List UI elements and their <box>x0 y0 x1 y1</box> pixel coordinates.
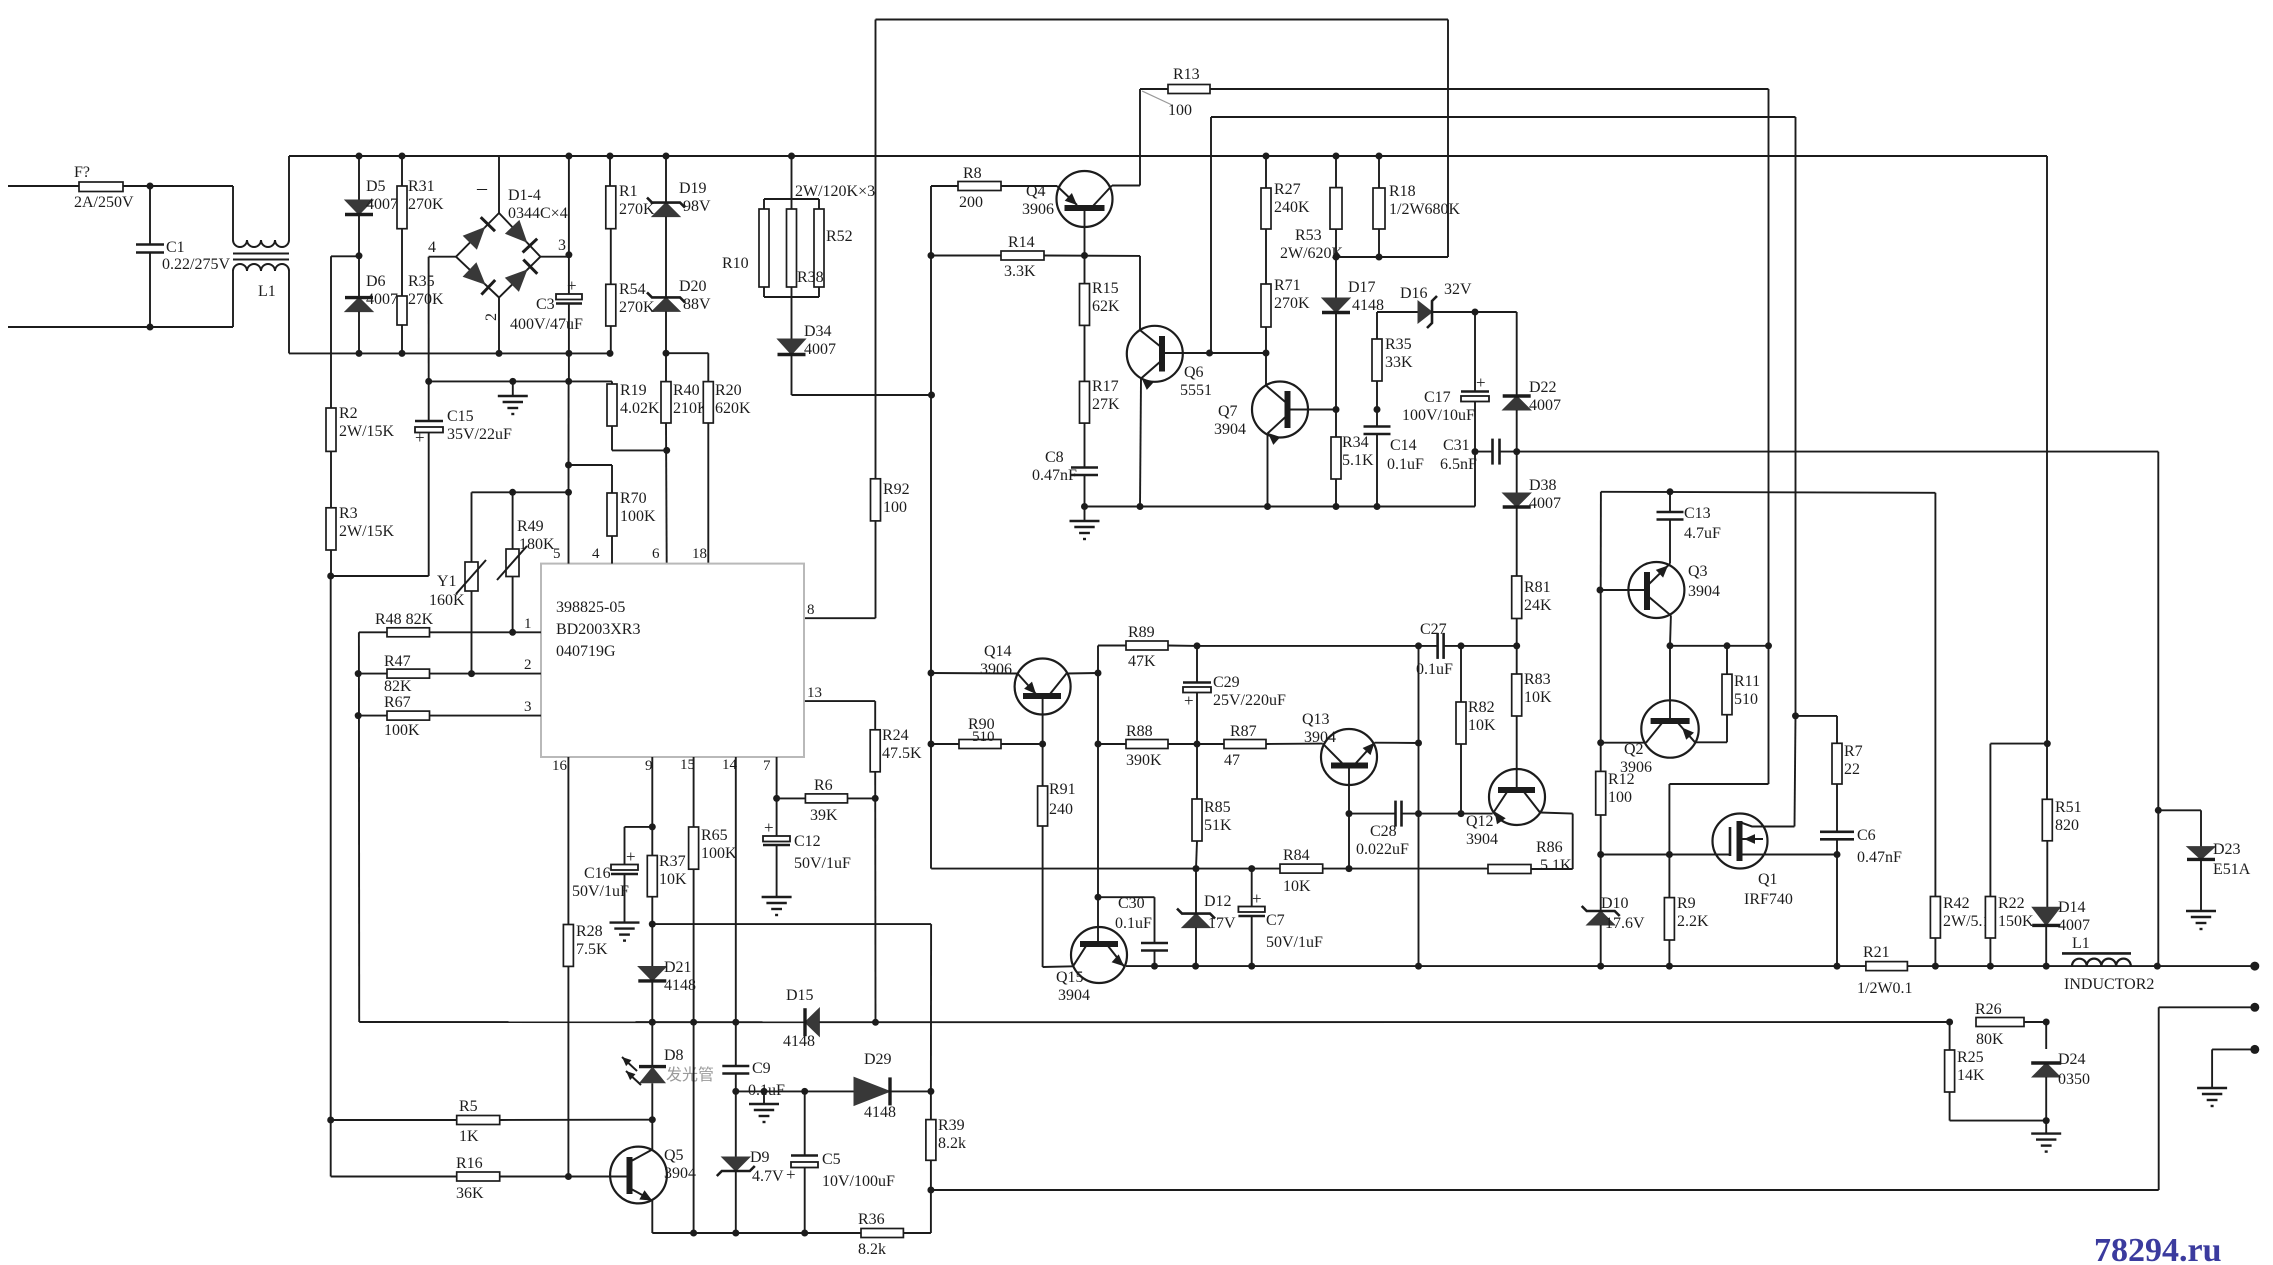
Q15 collector diagonal <box>1073 946 1086 966</box>
wire <box>1195 928 1197 967</box>
wire <box>2159 1006 2255 1008</box>
svg-text:51K: 51K <box>1204 817 1232 834</box>
Q5 base lead <box>568 1176 629 1178</box>
svg-text:C17: C17 <box>1424 389 1451 406</box>
wire <box>358 312 360 354</box>
wire <box>610 229 612 285</box>
ground stem <box>2045 1121 2047 1134</box>
svg-text:240: 240 <box>1049 801 1073 818</box>
Q7 base lead <box>1288 409 1337 411</box>
svg-text:7: 7 <box>763 758 771 774</box>
wire top bus <box>289 155 2047 157</box>
wire <box>665 156 667 203</box>
wire <box>1266 743 1323 745</box>
wire <box>1084 475 1086 507</box>
node <box>468 670 475 677</box>
svg-text:2W/15K: 2W/15K <box>339 523 395 540</box>
resistor R52 <box>814 209 824 287</box>
capacitor C31 <box>1493 439 1500 465</box>
Q14 base bar <box>1023 693 1061 699</box>
node <box>1376 153 1383 160</box>
resistor R81 <box>1512 576 1522 619</box>
resistor R70 <box>607 493 617 536</box>
wire <box>1669 646 1671 721</box>
wire <box>735 1074 737 1092</box>
Q5 base bar <box>627 1157 633 1194</box>
node <box>649 823 656 830</box>
wire <box>930 924 932 1091</box>
node <box>565 1173 572 1180</box>
Q15 base bar <box>1080 941 1118 947</box>
svg-text:R10: R10 <box>722 255 749 272</box>
svg-text:R85: R85 <box>1204 799 1231 816</box>
node <box>663 447 670 454</box>
svg-text:Q13: Q13 <box>1302 711 1330 728</box>
svg-text:+: + <box>786 1165 796 1184</box>
capacitor C9 <box>722 1066 749 1074</box>
node <box>1597 963 1604 970</box>
node <box>2155 807 2162 814</box>
node <box>1597 739 1604 746</box>
svg-text:2A/250V: 2A/250V <box>74 194 134 211</box>
svg-text:25V/220uF: 25V/220uF <box>1213 692 1286 709</box>
node <box>1415 810 1422 817</box>
wire <box>610 326 612 353</box>
node <box>1333 406 1340 413</box>
svg-text:R18: R18 <box>1389 183 1416 200</box>
svg-text:3904: 3904 <box>1058 987 1090 1004</box>
node <box>1081 503 1088 510</box>
wire <box>430 715 542 717</box>
capacitor C27 <box>1438 633 1444 659</box>
svg-text:240K: 240K <box>1274 199 1310 216</box>
Q14 emitter diagonal <box>1018 674 1037 695</box>
node <box>1666 851 1673 858</box>
capacitor C15 <box>415 421 443 433</box>
wire C15 lower lead <box>428 433 430 577</box>
svg-text:D38: D38 <box>1529 477 1557 494</box>
wire <box>512 577 514 633</box>
svg-text:510: 510 <box>1734 691 1758 708</box>
svg-text:3906: 3906 <box>1022 201 1054 218</box>
wire <box>666 352 708 354</box>
Q15 emitter diagonal <box>1108 946 1124 966</box>
svg-text:C30: C30 <box>1118 895 1145 912</box>
resistor R36 <box>861 1229 903 1238</box>
capacitor C17 <box>1461 392 1489 402</box>
svg-text:R51: R51 <box>2055 799 2082 816</box>
svg-text:R91: R91 <box>1049 781 1076 798</box>
node <box>1667 488 1674 495</box>
capacitor C13 <box>1657 512 1684 520</box>
node <box>356 153 363 160</box>
svg-text:R9: R9 <box>1677 895 1696 912</box>
wire <box>874 701 876 730</box>
svg-text:98V: 98V <box>683 198 711 215</box>
transistor Q7 <box>1252 382 1308 438</box>
svg-text:R7: R7 <box>1844 743 1863 760</box>
wire <box>1251 869 1253 907</box>
wire <box>1210 88 1769 90</box>
svg-text:5.1K: 5.1K <box>1540 857 1572 874</box>
svg-text:040719G: 040719G <box>556 643 616 660</box>
svg-text:0.022uF: 0.022uF <box>1356 841 1409 858</box>
wire <box>331 255 359 257</box>
wire <box>569 464 613 466</box>
svg-text:IRF740: IRF740 <box>1744 891 1793 908</box>
node <box>649 921 656 928</box>
wire <box>764 296 819 298</box>
zener D20 <box>647 292 685 311</box>
svg-text:R65: R65 <box>701 827 728 844</box>
wire <box>330 451 332 507</box>
svg-text:270K: 270K <box>1274 295 1310 312</box>
node <box>355 670 362 677</box>
wire <box>1836 784 1838 831</box>
node <box>663 350 670 357</box>
Q4 base bar <box>1065 205 1105 211</box>
wire <box>791 156 793 199</box>
diode D3 (bridge bottom-left) <box>463 262 496 294</box>
wire <box>1067 672 1099 675</box>
node <box>496 350 503 357</box>
svg-text:50V/1uF: 50V/1uF <box>794 855 851 872</box>
node <box>1192 963 1199 970</box>
svg-text:D12: D12 <box>1204 893 1232 910</box>
wire <box>2046 841 2048 907</box>
transistor Q12 <box>1489 769 1545 825</box>
fuse F? <box>79 182 123 192</box>
svg-text:R22: R22 <box>1998 895 2025 912</box>
svg-text:820: 820 <box>2055 817 2079 834</box>
wire <box>1042 744 1044 967</box>
node <box>773 795 780 802</box>
capacitor C8 <box>1071 468 1098 476</box>
wire <box>429 380 612 382</box>
svg-text:78294.ru: 78294.ru <box>2094 1232 2222 1265</box>
svg-text:88V: 88V <box>683 296 711 313</box>
Q2 emitter diagonal <box>1678 723 1695 742</box>
wire <box>471 492 473 562</box>
svg-text:D15: D15 <box>786 987 814 1004</box>
resistor R16 <box>457 1172 500 1181</box>
resistor R10a <box>759 209 769 287</box>
svg-text:R84: R84 <box>1283 847 1310 864</box>
Q1 channel bar <box>1737 821 1743 861</box>
wire R16 line <box>331 1176 457 1178</box>
wire <box>123 185 233 187</box>
svg-text:D22: D22 <box>1529 379 1557 396</box>
svg-text:0.47nF: 0.47nF <box>1032 467 1077 484</box>
wire <box>1795 117 1797 716</box>
wire bus1b <box>1907 965 2254 967</box>
wire C16 top <box>625 826 653 828</box>
transistor Q6 <box>1127 326 1183 382</box>
svg-text:C29: C29 <box>1213 674 1240 691</box>
ground <box>2031 1134 2061 1152</box>
svg-text:10K: 10K <box>1468 717 1496 734</box>
svg-text:0.22/275V: 0.22/275V <box>162 256 230 273</box>
svg-text:R38: R38 <box>797 269 824 286</box>
Q13 emitter diagonal <box>1356 743 1375 763</box>
svg-text:R27: R27 <box>1274 181 1301 198</box>
node <box>1513 448 1520 455</box>
wire <box>232 271 234 327</box>
resistor R92 <box>871 479 881 521</box>
svg-text:27K: 27K <box>1092 396 1120 413</box>
svg-text:R35: R35 <box>408 273 435 290</box>
svg-text:C13: C13 <box>1684 505 1711 522</box>
wire <box>791 297 793 339</box>
resistor R17 <box>1080 381 1090 423</box>
wire <box>1990 743 2047 745</box>
svg-text:3904: 3904 <box>1304 729 1336 746</box>
capacitor C1 <box>136 245 164 253</box>
wire <box>1376 434 1378 507</box>
node <box>1374 503 1381 510</box>
node <box>1263 153 1270 160</box>
node <box>732 1019 739 1026</box>
wire <box>1796 715 1838 717</box>
svg-text:50V/1uF: 50V/1uF <box>572 883 629 900</box>
wire R14 lead <box>931 255 1001 257</box>
Q3 base bar <box>1644 572 1650 610</box>
Q4 collector diagonal <box>1093 186 1112 207</box>
wire <box>1375 742 1419 744</box>
svg-text:R12: R12 <box>1608 771 1635 788</box>
wire <box>1572 814 1574 869</box>
resistor R22 <box>1985 897 1995 939</box>
node <box>399 153 406 160</box>
wire <box>1335 313 1337 438</box>
wire <box>1669 783 1768 785</box>
node <box>509 489 516 496</box>
resistor R65 <box>689 827 699 869</box>
svg-text:R15: R15 <box>1092 280 1119 297</box>
varistor R49 <box>497 546 527 580</box>
node <box>1597 587 1604 594</box>
wire <box>874 772 876 1023</box>
svg-text:R81: R81 <box>1524 579 1551 596</box>
wire <box>430 631 542 633</box>
resistor R18 <box>1373 188 1385 229</box>
svg-text:22: 22 <box>1844 761 1860 778</box>
wire <box>1044 255 1140 257</box>
svg-text:100: 100 <box>1168 102 1192 119</box>
wire C28 right <box>1402 813 1493 815</box>
wire y117 <box>1211 116 1796 118</box>
svg-text:7.5K: 7.5K <box>576 941 608 958</box>
wire gnd bus <box>1085 506 1476 508</box>
node <box>1987 963 1994 970</box>
node <box>649 1116 656 1123</box>
wire <box>1210 117 1212 353</box>
wire <box>1112 185 1140 187</box>
svg-text:R47: R47 <box>384 653 411 670</box>
leader line R13 <box>1142 91 1172 105</box>
wire <box>401 156 403 186</box>
wire <box>1695 741 1727 743</box>
svg-text:4.7uF: 4.7uF <box>1684 525 1721 542</box>
wire <box>1084 256 1086 284</box>
wire top box left <box>875 20 877 479</box>
wire <box>1474 402 1476 507</box>
wire <box>624 827 626 865</box>
Q1 substrate arrow <box>1740 838 1764 840</box>
diode D29 <box>854 1077 890 1105</box>
svg-text:D19: D19 <box>679 180 707 197</box>
svg-text:D21: D21 <box>664 959 692 976</box>
resistor R11 <box>1722 674 1732 715</box>
wire <box>1670 645 1769 647</box>
resistor R24 <box>870 730 880 772</box>
node <box>1081 252 1088 259</box>
wire <box>1989 938 1991 966</box>
wire R90 lead <box>931 743 959 745</box>
svg-text:R13: R13 <box>1173 66 1200 83</box>
node <box>1095 894 1102 901</box>
Q3 base lead <box>1600 589 1647 591</box>
Q4 emitter diagonal <box>1057 186 1077 205</box>
wire <box>651 897 653 967</box>
svg-text:R31: R31 <box>408 178 435 195</box>
svg-text:4148: 4148 <box>864 1104 896 1121</box>
svg-text:2W/5.1: 2W/5.1 <box>1943 913 1991 930</box>
wire <box>1669 492 1671 512</box>
svg-text:R88: R88 <box>1126 723 1153 740</box>
node <box>1834 963 1841 970</box>
wire <box>1265 229 1267 284</box>
svg-text:发光管: 发光管 <box>666 1066 714 1084</box>
svg-text:D9: D9 <box>750 1149 770 1166</box>
node <box>1724 642 1731 649</box>
wire pin5 <box>568 492 570 563</box>
svg-text:R25: R25 <box>1957 1049 1984 1066</box>
wire D29 line <box>736 1090 854 1092</box>
wire <box>330 576 332 1120</box>
node <box>399 350 406 357</box>
resistor R8 <box>958 182 1001 191</box>
wire C15 upper lead <box>428 381 430 421</box>
wire <box>763 199 765 209</box>
capacitor C28 <box>1396 801 1402 827</box>
svg-text:4: 4 <box>428 239 436 256</box>
node <box>565 350 572 357</box>
svg-text:0.1uF: 0.1uF <box>1416 661 1453 678</box>
diode D5 <box>345 200 373 215</box>
resistor R37 <box>647 856 657 897</box>
svg-text:R48 82K: R48 82K <box>375 611 434 628</box>
node <box>788 153 795 160</box>
wire C28 left <box>1349 813 1396 815</box>
svg-text:R5: R5 <box>459 1098 478 1115</box>
resistor R3 <box>326 508 336 550</box>
svg-text:0344C×4: 0344C×4 <box>508 205 568 222</box>
diode D6 <box>345 298 373 312</box>
svg-text:200: 200 <box>959 194 983 211</box>
node <box>355 712 362 719</box>
svg-text:6.5nF: 6.5nF <box>1440 456 1477 473</box>
zener D10 <box>1582 906 1620 925</box>
node <box>356 350 363 357</box>
wire <box>1335 229 1337 298</box>
terminal out3 <box>2250 1045 2259 1054</box>
capacitor C16 <box>611 865 638 875</box>
node 3 <box>565 251 572 258</box>
svg-text:1: 1 <box>524 616 532 632</box>
resistor R27 <box>1261 188 1271 229</box>
wire <box>1432 311 1517 313</box>
node <box>356 252 363 259</box>
wire <box>568 304 570 382</box>
svg-text:Q4: Q4 <box>1026 183 1046 200</box>
wire <box>1949 1092 1951 1121</box>
svg-text:Q12: Q12 <box>1466 813 1494 830</box>
wire <box>8 326 233 328</box>
capacitor C3 <box>556 294 582 304</box>
wire <box>1154 897 1156 942</box>
wire <box>1336 256 1448 258</box>
svg-text:D20: D20 <box>679 278 707 295</box>
svg-text:Q3: Q3 <box>1688 563 1708 580</box>
wire <box>471 591 473 674</box>
svg-text:16: 16 <box>552 758 568 774</box>
ground <box>762 897 792 915</box>
wire <box>1335 479 1337 507</box>
wire <box>1195 869 1197 914</box>
wire top box right <box>1447 20 1449 258</box>
wire bus2 left <box>359 1021 805 1023</box>
node <box>565 489 572 496</box>
ground stem <box>1084 507 1086 522</box>
svg-text:8.2k: 8.2k <box>858 1241 886 1258</box>
node <box>1415 740 1422 747</box>
wire pin8 h <box>805 617 876 619</box>
svg-text:D14: D14 <box>2058 899 2086 916</box>
wire <box>791 287 793 297</box>
svg-text:C27: C27 <box>1420 621 1447 638</box>
resistor R83 <box>1512 674 1522 716</box>
node <box>425 378 432 385</box>
node <box>928 670 935 677</box>
wire <box>930 1160 932 1233</box>
resistor R5 <box>457 1116 500 1125</box>
wire <box>1376 381 1378 426</box>
wire <box>930 186 932 869</box>
svg-text:R6: R6 <box>814 777 833 794</box>
Q12 collector bar <box>1498 787 1535 793</box>
svg-text:8: 8 <box>807 602 815 618</box>
wire <box>791 199 793 209</box>
wire <box>1669 616 1672 646</box>
Q6 base lead <box>1162 352 1266 354</box>
svg-text:3.3K: 3.3K <box>1004 263 1036 280</box>
transistor Q13 <box>1321 729 1377 785</box>
svg-text:18: 18 <box>692 546 707 562</box>
Q3 collector diagonal <box>1649 597 1671 616</box>
node <box>928 392 935 399</box>
wire <box>1265 327 1267 353</box>
wire long 1190 <box>931 1189 2159 1191</box>
wire R36 line <box>652 1232 861 1234</box>
wire <box>1139 256 1141 331</box>
svg-text:100K: 100K <box>701 845 737 862</box>
svg-text:33K: 33K <box>1385 354 1413 371</box>
Q14 collector diagonal <box>1050 674 1067 695</box>
svg-text:D24: D24 <box>2058 1051 2086 1068</box>
Q12 emitter diagonal <box>1494 792 1508 813</box>
svg-text:R92: R92 <box>883 481 910 498</box>
